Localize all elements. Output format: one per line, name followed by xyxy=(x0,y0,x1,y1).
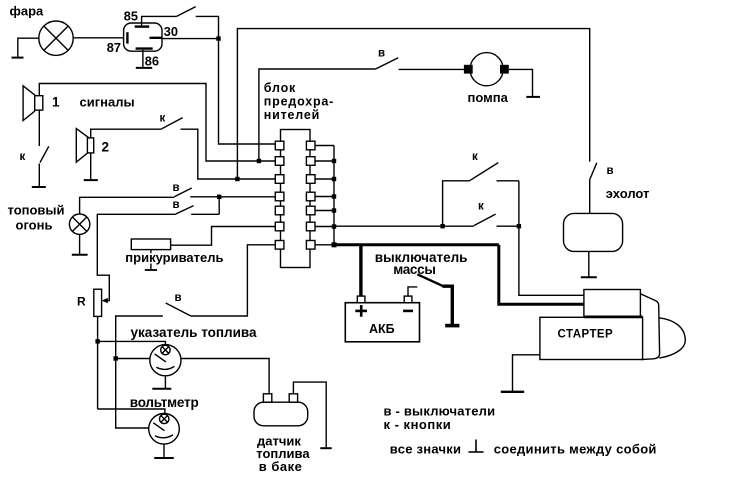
node R output xyxy=(95,339,99,343)
svg-text:2: 2 xyxy=(102,140,110,155)
wire horn2 bottom xyxy=(90,153,92,179)
horn 2 speaker xyxy=(76,129,93,163)
rheostat R body xyxy=(94,289,102,316)
battery АКБ box xyxy=(345,303,419,342)
node row2 pump branch xyxy=(257,159,261,163)
svg-text:к: к xyxy=(472,151,478,163)
fuse F1 left xyxy=(275,141,284,150)
fuse F1 right xyxy=(306,141,315,150)
voltmeter needle xyxy=(153,423,164,431)
wire в1 to fuse row4 xyxy=(190,196,275,198)
node bus row2 xyxy=(332,159,336,163)
wire fuse row6 to button pair xyxy=(334,225,474,227)
button к (lower) blade xyxy=(474,214,496,226)
fuse F5 left xyxy=(275,206,284,215)
button к (upper) blade xyxy=(469,163,498,181)
switch в1 blade xyxy=(174,188,191,197)
wire R bottom xyxy=(97,316,99,409)
fuel gauge needle xyxy=(155,354,166,362)
wire row3 stub xyxy=(315,178,334,180)
wire sensor right to ground xyxy=(293,382,326,447)
wire up to button k1 xyxy=(443,181,470,226)
ground (pump) xyxy=(526,96,540,98)
svg-text:к - кнопки: к - кнопки xyxy=(384,417,452,432)
node k outputs join xyxy=(517,224,521,228)
wire 30 to junction xyxy=(162,38,219,40)
voltmeter body xyxy=(149,414,180,445)
minus sign xyxy=(403,310,413,313)
fuse F7 right xyxy=(306,241,315,250)
svg-text:в: в xyxy=(173,182,180,194)
svg-text:в баке: в баке xyxy=(259,459,303,474)
pump motor M1 xyxy=(470,53,503,86)
fuse F3 left xyxy=(275,175,284,184)
pump terminal right xyxy=(500,65,509,74)
ground (echolot) xyxy=(581,276,597,278)
switch в2 blade xyxy=(176,206,194,214)
wire fuse row3 up and across top to echolot xyxy=(237,29,589,179)
wire lamp to relay 87 xyxy=(73,37,123,39)
wire bus to starter down (thick) xyxy=(499,245,584,304)
fuse F4 left xyxy=(275,192,284,201)
echolot box xyxy=(564,213,623,251)
svg-text:прикуриватель: прикуриватель xyxy=(125,250,223,265)
wire to fuel gauge input xyxy=(116,358,150,360)
svg-text:предохра-: предохра- xyxy=(264,95,334,109)
pin 86 bar xyxy=(136,47,153,49)
wire master switch to ground (thick) xyxy=(442,286,452,324)
wire horn1 top to fuse row2 xyxy=(39,84,275,162)
fuel tank sensor body xyxy=(254,402,308,426)
switch в (gauges) blade xyxy=(166,303,191,316)
node bus row5 xyxy=(332,208,336,212)
ground (horn2) xyxy=(84,179,98,181)
ground (headlight) xyxy=(12,57,24,59)
svg-text:85: 85 xyxy=(124,9,138,24)
fuse F4 right xyxy=(306,192,315,201)
fuel gauge body xyxy=(150,345,181,376)
fuse F5 right xyxy=(306,206,315,215)
node row3 junction xyxy=(235,177,239,181)
node row4 junction xyxy=(217,195,221,199)
wire to fuel gauge lamp xyxy=(98,341,166,345)
wire pump right to ground xyxy=(509,69,533,96)
fuse F6 left xyxy=(275,222,284,231)
wire switch to fuse row3 xyxy=(181,129,276,179)
fuse F2 right xyxy=(306,157,315,166)
ground (fuel sensor) xyxy=(320,447,331,449)
starter main box xyxy=(540,317,643,359)
ground (voltmeter) xyxy=(154,457,173,459)
button switch к (horn1) blade xyxy=(40,146,49,162)
wire row6 stub xyxy=(315,226,334,228)
fuel gauge lamp xyxy=(161,345,170,354)
wire horn1 bottom xyxy=(38,110,40,146)
voltmeter lamp xyxy=(160,414,169,423)
wire bus vertical xyxy=(333,146,335,245)
wire switch to pump xyxy=(399,68,465,70)
switch в (echolot) blade xyxy=(590,163,597,180)
wire k1 output xyxy=(497,180,519,182)
wire fuse row7 to gauge switch xyxy=(191,245,275,316)
master switch blade xyxy=(417,274,443,286)
wire starter ground xyxy=(513,355,540,391)
relay K1 body xyxy=(124,23,162,51)
ground (horn1) xyxy=(32,186,46,188)
pin 85 bar xyxy=(135,25,150,27)
wire switch to gauges feed xyxy=(116,316,163,428)
starter solenoid/main boundary (thick) xyxy=(584,315,643,318)
rheostat R arrow xyxy=(102,298,108,303)
svg-text:в: в xyxy=(607,165,614,177)
wire в2 output xyxy=(191,213,219,215)
node bus row4 xyxy=(332,194,336,198)
svg-text:вольтметр: вольтметр xyxy=(130,395,199,410)
node junction 30/85 xyxy=(216,36,220,40)
wire minus terminal up xyxy=(408,287,417,296)
wire lamp top to switch в1 xyxy=(80,197,175,214)
fuse F3 right xyxy=(306,175,315,184)
svg-text:в: в xyxy=(378,48,385,60)
sensor terminal left xyxy=(263,394,271,402)
wire switch to junction xyxy=(196,16,219,38)
node bus row7 xyxy=(332,242,337,247)
svg-text:огонь: огонь xyxy=(16,217,53,232)
wire echolot to ground xyxy=(588,251,590,276)
node bus row3 xyxy=(332,177,336,181)
wire k2 output xyxy=(497,225,519,227)
svg-text:помпа: помпа xyxy=(468,90,509,105)
plus sign xyxy=(355,305,367,317)
wire lighter to fuse row6 xyxy=(171,227,276,246)
wire junction down to fuse row1 xyxy=(219,39,276,144)
wire в2 input from R wiper xyxy=(97,214,176,300)
wire horn2 top xyxy=(91,129,162,138)
wire row4 stub xyxy=(315,196,334,198)
svg-text:указатель топлива: указатель топлива xyxy=(131,325,258,340)
svg-text:86: 86 xyxy=(145,53,159,68)
wire lamp left xyxy=(18,38,39,57)
wire row7 stub xyxy=(315,244,334,246)
wire row1 stub to bus xyxy=(315,145,334,147)
svg-text:в: в xyxy=(175,292,182,304)
wire fuel gauge ground xyxy=(164,376,166,388)
svg-text:к: к xyxy=(20,151,26,163)
wire lighter ground stub xyxy=(150,250,152,254)
wire battery plus drop (thick) xyxy=(359,245,362,296)
label топовый огонь xyxy=(8,203,65,233)
switch в (pump) blade xyxy=(376,58,399,69)
svg-text:топовый: топовый xyxy=(8,203,65,218)
label датчик топлива в баке xyxy=(256,433,310,474)
fuse F2 left xyxy=(275,157,284,166)
ground (fuel gauge) xyxy=(152,388,171,390)
svg-text:к: к xyxy=(160,113,166,125)
horn 1 speaker xyxy=(23,86,43,121)
fuse block label xyxy=(264,81,334,122)
ground (starter) xyxy=(501,391,524,393)
fuse F6 right xyxy=(306,222,315,231)
fuel gauge scale arc xyxy=(156,366,174,369)
svg-text:эхолот: эхолот xyxy=(606,186,650,201)
wire row5 stub xyxy=(315,210,334,212)
wire row2 stub xyxy=(315,160,334,162)
starter nose collar xyxy=(640,294,659,360)
wire to ground xyxy=(38,164,40,187)
sensor terminal right xyxy=(289,394,297,402)
wire 86 down xyxy=(142,50,144,67)
wire 85 up and right xyxy=(142,16,177,25)
starter solenoid box xyxy=(584,290,641,317)
pin 30 bar xyxy=(150,37,162,39)
wire fuel gauge to sensor xyxy=(181,359,269,394)
svg-text:сигналы: сигналы xyxy=(80,95,135,110)
svg-text:нителей: нителей xyxy=(264,108,320,122)
cigarette lighter box xyxy=(131,239,170,250)
wire to voltmeter lamp xyxy=(98,409,165,414)
node k-pair input xyxy=(440,224,444,228)
switch blade (relay feed switch) xyxy=(177,7,196,17)
ground (master switch, thick) xyxy=(445,324,459,328)
battery terminal plus xyxy=(357,296,365,303)
fuse block body xyxy=(281,130,311,268)
svg-text:1: 1 xyxy=(52,95,60,110)
svg-text:соединить между собой: соединить между собой xyxy=(494,441,657,456)
svg-text:в: в xyxy=(173,199,180,211)
svg-text:фара: фара xyxy=(10,4,45,19)
svg-text:30: 30 xyxy=(164,24,178,39)
ground (топовый огонь) xyxy=(72,254,88,256)
wire lamp bottom xyxy=(79,234,81,254)
pump terminal left xyxy=(464,65,473,74)
svg-text:к: к xyxy=(478,201,484,213)
label выключатель массы xyxy=(375,250,468,277)
wire fuse row2 up to pump branch xyxy=(259,69,376,161)
pin 87 bar xyxy=(126,32,128,43)
wire switch to echolot box xyxy=(589,180,591,214)
fuse F7 left xyxy=(275,241,284,250)
node gauge feed xyxy=(114,356,118,360)
ground (relay 86) xyxy=(136,67,152,69)
svg-text:массы: массы xyxy=(393,262,435,277)
button switch к (horn2) blade xyxy=(162,118,183,129)
svg-text:87: 87 xyxy=(107,40,121,55)
lamp топовый огонь xyxy=(69,214,89,234)
node bus row6 xyxy=(332,224,336,228)
wire junction down to в2 output xyxy=(218,197,220,215)
legend ground symbol xyxy=(469,440,484,453)
svg-text:R: R xyxy=(77,295,86,309)
svg-text:АКБ: АКБ xyxy=(369,322,395,336)
lamp HL1 фара xyxy=(39,21,73,55)
voltmeter scale arc xyxy=(155,435,173,438)
svg-text:все значки: все значки xyxy=(390,441,462,456)
wire main power bus (thick) xyxy=(334,243,499,246)
svg-text:СТАРТЕР: СТАРТЕР xyxy=(558,328,614,340)
ground (lighter) xyxy=(145,264,157,271)
svg-text:блок: блок xyxy=(264,81,296,95)
battery terminal minus xyxy=(404,296,412,303)
wire buttons to starter solenoid xyxy=(519,181,584,295)
wire voltmeter ground xyxy=(163,444,165,457)
starter nose bullet xyxy=(659,318,686,358)
